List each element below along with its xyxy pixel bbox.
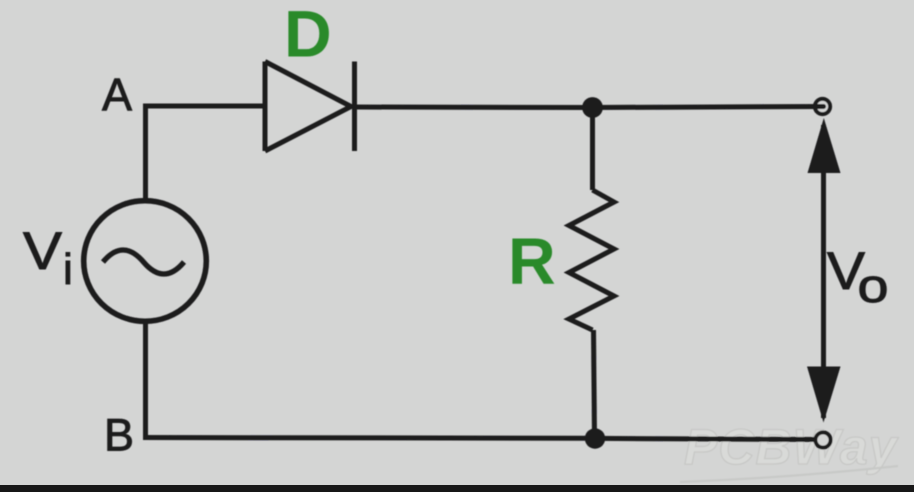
diode D1 triangle — [265, 62, 351, 152]
bottom black bar — [0, 485, 914, 492]
svg-text:B: B — [104, 410, 134, 461]
svg-text:o: o — [858, 259, 889, 312]
watermark swoosh — [680, 466, 898, 482]
wire: bottom junction to right terminal — [595, 438, 819, 439]
svg-text:i: i — [63, 245, 73, 294]
node: bottom junction dot — [585, 428, 605, 448]
svg-text:R: R — [508, 224, 556, 298]
watermark PCBWay — [684, 419, 899, 475]
wire: top junction to right terminal — [592, 107, 824, 108]
source Vi sine wave — [103, 250, 184, 274]
svg-text:V: V — [23, 222, 63, 281]
wire stub into top terminal — [816, 104, 824, 109]
wire: bottom horizontal from B to bottom junction — [143, 435, 595, 441]
Vo arrowhead up — [808, 118, 841, 173]
svg-text:A: A — [102, 69, 132, 120]
wire: left vertical from source bottom to node B — [143, 322, 148, 440]
wire: node A corner, top-left vertical drop to source — [143, 106, 148, 201]
svg-text:PCBWay: PCBWay — [684, 419, 899, 475]
wire: resistor top lead — [590, 108, 595, 191]
terminal: top-right open circle — [815, 99, 830, 114]
node: top junction dot — [582, 97, 603, 118]
svg-text:D: D — [284, 0, 332, 71]
Vo arrowhead down — [807, 367, 841, 423]
resistor R zigzag — [569, 190, 614, 330]
diode D1 cathode bar — [352, 62, 357, 152]
wire: top horizontal from A to diode anode — [143, 104, 265, 109]
wire: diode cathode to top junction — [354, 105, 592, 111]
terminal: bottom-right open circle — [815, 432, 830, 447]
Vo arrow shaft — [821, 125, 826, 418]
wire: resistor bottom lead — [594, 330, 595, 439]
source Vi circle — [84, 201, 207, 322]
